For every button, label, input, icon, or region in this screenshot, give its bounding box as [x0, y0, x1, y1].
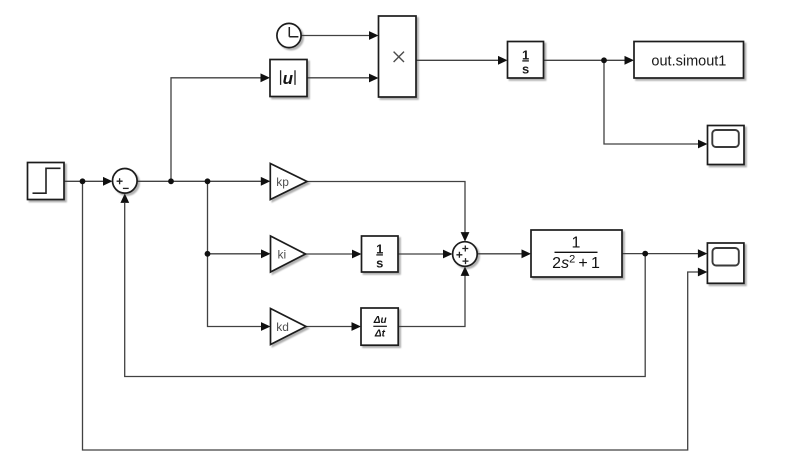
- svg-text:out.simout1: out.simout1: [651, 53, 726, 69]
- svg-text:Δu: Δu: [373, 315, 387, 326]
- svg-text:kd: kd: [276, 320, 289, 334]
- svg-text:1: 1: [376, 241, 383, 256]
- svg-text:1: 1: [522, 47, 529, 62]
- svg-text:ki: ki: [277, 248, 286, 262]
- svg-text:s: s: [376, 256, 383, 271]
- svg-text:u: u: [283, 69, 294, 88]
- svg-text:1: 1: [572, 235, 581, 252]
- svg-text:Δt: Δt: [374, 328, 386, 339]
- svg-text:kp: kp: [276, 175, 289, 189]
- svg-text:2s2 + 1: 2s2 + 1: [552, 253, 600, 272]
- svg-text:s: s: [522, 62, 529, 77]
